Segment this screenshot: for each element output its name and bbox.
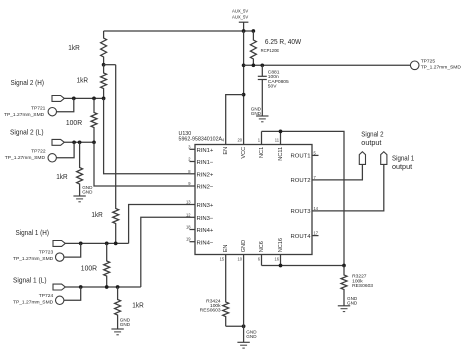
svg-text:1kR: 1kR: [91, 210, 103, 219]
svg-text:GND: GND: [82, 189, 93, 194]
junction C881 top: [260, 63, 264, 67]
svg-text:output: output: [392, 162, 413, 171]
svg-text:5962-958340102A: 5962-958340102A: [179, 137, 223, 143]
pin 10 GND label: [238, 240, 247, 261]
label Signal 2 (L): [10, 128, 44, 137]
junction NC11 top: [279, 130, 283, 134]
pin 8 RIN2+ stub: [188, 169, 214, 179]
svg-text:10: 10: [238, 256, 243, 261]
svg-text:12: 12: [186, 212, 191, 217]
ground main (U130): [237, 330, 257, 349]
svg-text:11: 11: [275, 137, 280, 142]
svg-text:19: 19: [186, 237, 191, 242]
svg-text:100R: 100R: [81, 264, 98, 273]
wire NC6/NC16 to right riser: [262, 255, 345, 266]
svg-text:AUX_5V: AUX_5V: [232, 14, 249, 20]
svg-text:16: 16: [274, 256, 279, 261]
svg-text:RES0603: RES0603: [200, 308, 221, 314]
resistor R3227 100k: [341, 266, 373, 306]
svg-text:RIN3−: RIN3−: [197, 216, 214, 222]
pin 12 RIN3- stub: [186, 212, 214, 222]
pin 11 NC11 stub: [275, 131, 284, 160]
pin 9 RIN2- stub: [188, 181, 214, 191]
test point TP721: [4, 98, 74, 117]
resistor R4 1kR (Signal 2 L to GND): [56, 142, 82, 196]
wire VCC riser: [243, 31, 245, 145]
svg-text:Signal 2 (L): Signal 2 (L): [10, 128, 44, 137]
wire ROUT3 to Signal 1 output: [319, 164, 384, 211]
resistor RCP120E 6.25 R 40W: [250, 31, 301, 65]
pin 1 NC1 stub: [258, 131, 265, 158]
pin 17 ROUT4 stub: [291, 231, 319, 240]
junction TP722 tap: [72, 140, 76, 144]
svg-text:Signal 1 (H): Signal 1 (H): [16, 228, 50, 237]
svg-text:Signal 1: Signal 1: [392, 153, 414, 162]
svg-text:TP722: TP722: [31, 148, 46, 154]
pin 7 ROUT2 stub: [291, 175, 319, 184]
power symbol AUX_5V: [232, 9, 249, 31]
junction R5 bottom: [114, 242, 118, 246]
wire Signal 1 (L) to RIN3-: [141, 217, 190, 287]
pin 16 NC16 label: [274, 238, 283, 261]
svg-text:TP_1.27mm_SMD: TP_1.27mm_SMD: [13, 256, 54, 262]
pin 14 ROUT3 stub: [291, 206, 319, 215]
wire to TP725: [244, 64, 411, 66]
pin 18 RIN4+ stub: [186, 225, 214, 235]
pin NC16 stub bottom: [280, 255, 282, 266]
junction R2 bottom: [102, 97, 106, 101]
svg-text:18: 18: [186, 225, 191, 230]
ground under R7: [111, 317, 130, 335]
junction VCC/TP wire: [242, 63, 246, 67]
junction R4 top: [78, 140, 82, 144]
svg-text:NC6: NC6: [259, 241, 265, 252]
capacitor C881 100n: [258, 65, 289, 116]
svg-text:GND: GND: [120, 322, 131, 327]
input port Signal 1 (H): [53, 241, 65, 247]
output port Signal 2: [359, 129, 383, 164]
junction right riser bottom: [342, 264, 346, 268]
wire GND pin down: [243, 255, 245, 343]
output port Signal 1: [381, 152, 415, 172]
test point TP724: [13, 287, 81, 305]
svg-text:15: 15: [220, 256, 225, 261]
svg-text:1kR: 1kR: [132, 300, 144, 309]
svg-text:TP725: TP725: [421, 59, 436, 65]
svg-text:RES0603: RES0603: [352, 283, 373, 289]
junction rail / RCP120E: [252, 29, 256, 33]
resistor R6 100R: [81, 243, 110, 287]
junction RCP120E bottom: [252, 63, 256, 67]
op-amp U130 5962-958340102A (quad line receiver) body: [179, 131, 313, 255]
junction TP724 tap: [79, 285, 83, 289]
input port Signal 2 (H): [52, 96, 64, 102]
svg-text:ROUT4: ROUT4: [291, 234, 312, 240]
wire top rail AUX_5V net: [104, 30, 254, 32]
resistor R3 100R: [66, 98, 97, 142]
svg-text:50V: 50V: [268, 84, 277, 90]
svg-text:RIN2−: RIN2−: [197, 185, 214, 191]
svg-text:ROUT3: ROUT3: [291, 209, 312, 215]
resistor R5 1kR (bias to Signal 1 H): [91, 65, 118, 244]
svg-text:RIN1−: RIN1−: [197, 160, 214, 166]
svg-text:20: 20: [238, 137, 243, 142]
junction 100R bottom: [92, 140, 96, 144]
svg-text:GND: GND: [241, 240, 247, 252]
svg-text:ROUT2: ROUT2: [291, 178, 311, 184]
svg-text:13: 13: [186, 200, 191, 205]
pin 6 NC6 label: [258, 241, 265, 261]
wire Signal 2 (H) to RIN2+: [104, 98, 190, 173]
svg-text:GND: GND: [347, 300, 358, 305]
svg-text:Signal 1 (L): Signal 1 (L): [13, 276, 47, 285]
label Signal 2 (H): [11, 78, 45, 87]
wire Signal 2 (L) to RIN2-: [94, 142, 190, 186]
wire Signal 1 (H) to RIN3+: [129, 205, 190, 244]
test point TP723: [13, 243, 81, 261]
svg-text:TP_1.27mm_SMD: TP_1.27mm_SMD: [4, 112, 45, 118]
svg-text:6.25 R, 40W: 6.25 R, 40W: [265, 37, 302, 46]
svg-text:NC1: NC1: [259, 147, 265, 158]
svg-text:17: 17: [314, 231, 319, 236]
input port Signal 1 (L): [53, 284, 65, 290]
pin 20 VCC label: [238, 137, 247, 158]
wire R3424 to GND node: [226, 325, 244, 327]
pin 4 EN (top) label: [222, 137, 229, 154]
wire NC1/NC11 to right riser: [262, 131, 345, 265]
svg-text:RIN4−: RIN4−: [197, 240, 214, 246]
svg-text:14: 14: [314, 206, 319, 211]
pin 15 EN-bar (bottom) label: [220, 245, 229, 262]
svg-text:TP721: TP721: [31, 106, 46, 112]
junction R7 top: [116, 285, 120, 289]
junction GND node: [242, 324, 246, 328]
junction VCC/EN branch: [242, 93, 246, 97]
svg-text:output: output: [361, 138, 382, 147]
junction TP721 tap: [72, 97, 76, 101]
pin 2 RIN1- stub: [188, 157, 214, 167]
svg-text:1kR: 1kR: [56, 172, 68, 181]
svg-text:100R: 100R: [66, 118, 83, 127]
test point TP722: [5, 142, 74, 162]
wire bias tap branch: [104, 64, 116, 66]
svg-text:VCC: VCC: [241, 147, 247, 159]
svg-text:RIN2+: RIN2+: [197, 172, 214, 178]
svg-text:TP724: TP724: [39, 293, 54, 299]
svg-text:RIN1+: RIN1+: [197, 148, 214, 154]
wire EN branch: [226, 95, 244, 145]
svg-text:RCP120E: RCP120E: [261, 48, 280, 54]
svg-text:EN: EN: [223, 147, 229, 155]
svg-text:AUX_5V: AUX_5V: [232, 9, 249, 15]
svg-text:GND: GND: [246, 334, 257, 339]
wire Signal 1 (L) row: [65, 286, 141, 288]
wire Signal 2 (H) row: [64, 97, 103, 99]
resistor R3424 100k: [200, 255, 229, 327]
label Signal 1 (H): [16, 228, 50, 237]
junction 100R-2 top: [105, 242, 109, 246]
svg-text:EN: EN: [223, 245, 229, 253]
pin 3 RIN1+ stub: [188, 144, 214, 154]
svg-text:RIN3+: RIN3+: [197, 203, 214, 209]
junction node between R1/R2: [102, 63, 106, 67]
junction NC16 bottom: [279, 264, 283, 268]
junction 100R top: [92, 97, 96, 101]
junction TP723 tap: [79, 242, 83, 246]
svg-text:NC16: NC16: [278, 238, 284, 252]
input port Signal 2 (L): [52, 139, 64, 145]
resistor R2 1kR: [77, 65, 107, 99]
svg-text:TP_1.27mm_SMD: TP_1.27mm_SMD: [13, 299, 54, 305]
test point TP725: [410, 59, 461, 71]
svg-text:TP723: TP723: [39, 249, 54, 255]
svg-text:GND: GND: [251, 111, 262, 116]
junction 100R-2 bottom: [105, 285, 109, 289]
label Signal 1 (L): [13, 276, 47, 285]
ground under R4: [73, 185, 93, 202]
wire ROUT2 to Signal 2 output: [319, 164, 363, 180]
svg-text:Signal 2: Signal 2: [361, 129, 383, 138]
svg-text:TP_1.27mm_SMD: TP_1.27mm_SMD: [421, 64, 462, 70]
ground under C881: [251, 106, 269, 121]
svg-text:NC11: NC11: [278, 147, 284, 161]
svg-text:ROUT1: ROUT1: [291, 154, 311, 160]
resistor R7 1kR (Signal 1 L to GND): [115, 287, 145, 329]
svg-text:1kR: 1kR: [68, 43, 80, 52]
svg-text:1kR: 1kR: [77, 75, 89, 84]
pin 5 ROUT1 stub: [291, 150, 319, 159]
junction AUX_5V tap: [242, 29, 246, 33]
svg-text:Signal 2 (H): Signal 2 (H): [11, 78, 45, 87]
svg-text:RIN4+: RIN4+: [197, 228, 214, 234]
pin 13 RIN3+ stub: [186, 200, 214, 210]
wire Signal 2 (L) row: [64, 141, 94, 143]
resistor R1 1kR (top): [68, 31, 106, 65]
svg-text:TP_1.27mm_SMD: TP_1.27mm_SMD: [5, 155, 46, 161]
wire Signal 1 (H) row: [65, 242, 128, 244]
pin 19 RIN4- stub: [186, 237, 214, 247]
ground under R3227: [338, 296, 358, 312]
